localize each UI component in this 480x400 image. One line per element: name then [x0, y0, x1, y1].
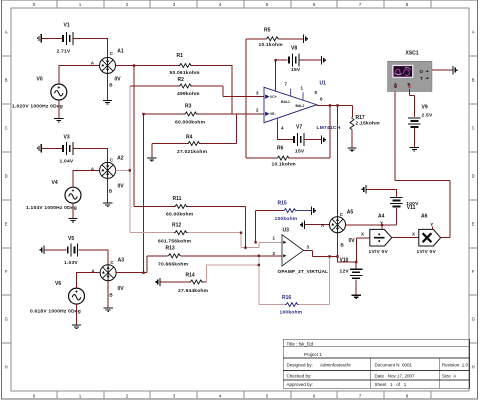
wire V4 to A2 A — [73, 170, 100, 187]
wire R5/R6 left leg — [245, 39, 247, 158]
svg-text:C: C — [5, 126, 8, 131]
svg-text:G: G — [472, 317, 475, 322]
ground (left of A5 A) — [301, 221, 305, 229]
wire V8 left to U1 pin7 — [276, 60, 288, 91]
title block text — [287, 342, 469, 388]
R16 feedback loop (pink) — [259, 256, 330, 305]
resistor R12 (pink net) — [130, 233, 259, 248]
resistor R3 — [144, 113, 233, 115]
resistor R16 (blue) — [285, 303, 299, 307]
svg-text:R1: R1 — [177, 53, 184, 59]
svg-text:T: T — [420, 76, 423, 81]
svg-text:27.021kohm: 27.021kohm — [177, 149, 208, 155]
svg-text:Size A: Size A — [442, 374, 456, 379]
ground (below V6) — [76, 304, 78, 325]
wire scope right to ground — [432, 69, 453, 71]
right ruler letters — [472, 30, 475, 370]
op-amp U1 — [264, 87, 317, 122]
wire A4 X input from V10 net — [356, 238, 370, 262]
svg-text:R13: R13 — [166, 246, 175, 252]
svg-text:1.104V 1000Hz 0Deg: 1.104V 1000Hz 0Deg — [26, 205, 77, 211]
ground (below A3 B) — [107, 281, 109, 308]
ground (below V4) — [72, 203, 74, 218]
svg-text:15V: 15V — [295, 148, 305, 154]
wire R15 left leg — [255, 211, 257, 243]
svg-text:50.061kohm: 50.061kohm — [170, 70, 201, 76]
svg-text:100kohm: 100kohm — [280, 310, 303, 316]
svg-text:V6: V6 — [55, 281, 61, 287]
AC source V6 — [69, 288, 85, 304]
svg-text:Sheet 1 of 1: Sheet 1 of 1 — [375, 382, 407, 387]
wire V11 top to ground — [367, 189, 397, 197]
svg-text:60.00kohm: 60.00kohm — [166, 212, 194, 218]
svg-text:Title : fsk_f2d: Title : fsk_f2d — [287, 342, 314, 347]
svg-text:A2: A2 — [117, 156, 124, 162]
svg-text:X: X — [412, 232, 415, 237]
svg-text:0V: 0V — [115, 77, 122, 83]
wire A4 out to A6 X — [392, 237, 419, 239]
svg-text:A: A — [472, 30, 475, 35]
wire R14 up to pin2 leg (pink) — [207, 265, 259, 282]
svg-text:27.944kohm: 27.944kohm — [178, 288, 209, 294]
wire V10 to ground — [355, 279, 357, 295]
svg-text:XSC1: XSC1 — [406, 51, 419, 57]
svg-text:R14: R14 — [186, 273, 195, 279]
wire output down to A5 C — [337, 105, 339, 216]
ground (left of V3) — [38, 144, 42, 152]
svg-text:70.666kohm: 70.666kohm — [158, 262, 189, 268]
battery V3 — [63, 142, 73, 155]
battery V5 — [68, 243, 78, 256]
svg-text:Revision 1.0: Revision 1.0 — [442, 363, 469, 368]
wire A1 out down to R11 row — [133, 66, 135, 207]
wire A3 out — [116, 256, 147, 273]
resistor R2 — [130, 86, 223, 97]
svg-text:X: X — [361, 232, 364, 237]
ground (right of R5) — [304, 35, 308, 43]
svg-text:R3: R3 — [185, 104, 192, 110]
bottom ruler numbers — [33, 394, 409, 399]
svg-text:VE-: VE- — [270, 112, 276, 116]
ground (left of R4) — [151, 144, 153, 158]
svg-text:B: B — [472, 78, 475, 83]
battery V10 (vertical) — [350, 269, 363, 278]
ground (right of R15) — [312, 206, 316, 214]
wire A5 B to V10 — [338, 233, 357, 269]
svg-text:O: O — [420, 69, 424, 74]
svg-text:601.756kohm: 601.756kohm — [158, 239, 192, 245]
wire U1 output — [317, 105, 353, 117]
svg-text:1V/V 0V: 1V/V 0V — [369, 249, 389, 255]
wire A2 out — [116, 169, 130, 171]
bottom ruler ticks — [57, 391, 431, 399]
ground (below A1 B) — [107, 74, 109, 101]
battery V8 — [289, 54, 299, 67]
wire A2 up to R2 row (pink) — [129, 86, 131, 233]
ground (left of V5) — [40, 246, 44, 254]
wire A6 out up to scope A — [395, 89, 450, 238]
svg-text:B: B — [408, 81, 411, 86]
svg-text:R15: R15 — [278, 201, 287, 207]
resistor R13 — [147, 255, 282, 257]
svg-text:R17: R17 — [356, 115, 365, 121]
svg-text:U3: U3 — [283, 228, 290, 234]
ground (left of V1) — [38, 34, 42, 42]
svg-text:V9: V9 — [422, 105, 428, 111]
wire U1 pin4 to V7 — [277, 122, 293, 140]
top ruler numbers — [33, 2, 409, 7]
svg-text:0V: 0V — [349, 238, 356, 244]
wire gnd to A5 A — [305, 224, 330, 226]
wire V0 to A1 A — [59, 65, 100, 84]
top ruler ticks — [57, 0, 431, 8]
svg-text:LM741CH: LM741CH — [317, 125, 341, 131]
svg-text:2.71V: 2.71V — [57, 49, 71, 55]
controlled block A3 — [100, 265, 116, 281]
svg-text:A1: A1 — [117, 49, 124, 55]
svg-text:BAL1: BAL1 — [281, 100, 290, 104]
svg-text:R2: R2 — [178, 77, 185, 83]
svg-text:R5: R5 — [264, 28, 271, 34]
svg-text:F: F — [5, 269, 8, 274]
svg-text:U1: U1 — [320, 81, 327, 87]
wire R11/R12 junction to U3 pin1 — [246, 242, 283, 247]
svg-text:A6: A6 — [421, 213, 428, 219]
resistor R1 — [179, 64, 193, 68]
svg-text:1.03V: 1.03V — [64, 260, 78, 266]
resistor R17 (vertical) — [350, 117, 354, 131]
svg-text:1.04V: 1.04V — [60, 159, 74, 165]
svg-text:C: C — [472, 126, 475, 131]
ground (below A2 B) — [107, 178, 109, 203]
wire R1 right to pin2 column — [192, 66, 232, 115]
AC source V0 — [51, 84, 67, 100]
svg-text:10.1kohm: 10.1kohm — [272, 161, 297, 167]
svg-text:R6: R6 — [277, 146, 284, 152]
svg-text:V3: V3 — [64, 135, 70, 141]
svg-text:Adminfostoschi: Adminfostoschi — [320, 363, 351, 368]
resistor R15 (blue) — [256, 210, 283, 212]
svg-text:12V: 12V — [340, 269, 350, 275]
svg-text:0V: 0V — [118, 286, 125, 292]
wire to U1 pin3 — [223, 96, 264, 98]
wire V3 to A2 C — [74, 148, 108, 162]
svg-text:R11: R11 — [173, 196, 182, 202]
svg-text:BAL2: BAL2 — [296, 104, 305, 108]
svg-text:V0: V0 — [37, 77, 43, 83]
svg-text:10.1kohm: 10.1kohm — [259, 42, 284, 48]
divider A4 — [370, 229, 392, 246]
op-amp U3 — [282, 235, 304, 266]
svg-text:V11: V11 — [407, 205, 416, 211]
svg-text:2.15kohm: 2.15kohm — [356, 121, 381, 127]
svg-text:H: H — [5, 365, 8, 370]
ground (left of R14) — [156, 278, 160, 286]
wire U3 output — [304, 250, 338, 256]
resistor R14 — [161, 281, 207, 283]
wire V8 right to ground — [299, 59, 321, 61]
svg-text:VC+: VC+ — [270, 95, 277, 99]
battery V1 — [63, 32, 73, 45]
svg-text:100kohm: 100kohm — [275, 216, 298, 222]
svg-text:V10: V10 — [340, 258, 349, 264]
svg-text:A4: A4 — [378, 213, 385, 219]
svg-text:Project 1: Project 1 — [304, 352, 322, 357]
svg-text:R4: R4 — [186, 135, 193, 141]
svg-text:E: E — [5, 222, 8, 227]
svg-text:R16: R16 — [282, 295, 291, 301]
left ruler letters — [5, 30, 8, 370]
wire R3 left down to A3 out — [143, 114, 145, 273]
svg-text:OPAMP_3T_VIRTUAL: OPAMP_3T_VIRTUAL — [278, 269, 329, 274]
svg-text:A: A — [394, 81, 397, 86]
resistor R11 — [134, 207, 246, 248]
title block frame — [283, 339, 469, 388]
resistor R5 — [246, 38, 303, 40]
svg-text:D: D — [5, 174, 8, 179]
svg-text:G: G — [5, 317, 8, 322]
svg-text:V4: V4 — [52, 180, 58, 186]
wire V1 to A1 C — [74, 38, 108, 57]
wire scope B to V9 — [409, 89, 414, 117]
ground (below V0) — [58, 100, 60, 119]
svg-text:Checked by:: Checked by: — [287, 374, 312, 379]
svg-text:B: B — [5, 78, 8, 83]
svg-text:H: H — [472, 365, 475, 370]
multiplier A6 — [419, 229, 441, 246]
wire A1 out to R1 — [116, 65, 179, 67]
resistor R6 — [246, 105, 330, 158]
controlled block A5 — [330, 217, 346, 233]
controlled block A1 — [100, 58, 116, 74]
svg-text:E: E — [472, 222, 475, 227]
left ruler ticks — [2, 56, 12, 343]
svg-text:Date Nov 17, 2007: Date Nov 17, 2007 — [375, 374, 416, 379]
svg-text:F: F — [472, 269, 475, 274]
wire V1 gnd to battery — [42, 37, 62, 39]
wire V5 to A3 C — [78, 250, 108, 265]
svg-text:V8: V8 — [291, 46, 297, 52]
svg-text:V1: V1 — [64, 23, 70, 29]
AC source V4 — [65, 187, 81, 203]
svg-text:0V: 0V — [118, 184, 125, 190]
wire to U1 pin2 — [232, 113, 264, 115]
wire V3 gnd to battery — [42, 147, 62, 149]
svg-text:15V: 15V — [291, 67, 301, 73]
wire A5 out / Y net — [346, 208, 397, 230]
svg-text:Y: Y — [430, 222, 433, 227]
svg-text:2.5V: 2.5V — [422, 113, 433, 119]
wire R17 to ground — [351, 131, 353, 148]
controlled block A2 — [100, 162, 116, 178]
svg-text:A5: A5 — [347, 210, 354, 216]
wire V7 right to ground — [304, 139, 321, 141]
svg-text:A: A — [5, 30, 8, 35]
svg-text:499kohm: 499kohm — [177, 91, 200, 97]
svg-text:60.000kohm: 60.000kohm — [175, 120, 206, 126]
battery V7 — [294, 133, 304, 146]
svg-text:A3: A3 — [118, 258, 125, 264]
wire V9 to ground — [413, 127, 415, 147]
svg-text:V5: V5 — [68, 236, 74, 242]
resistor R4 — [152, 114, 237, 144]
svg-text:Document N 0001: Document N 0001 — [375, 363, 413, 368]
svg-text:1.020V 1000Hz 0Deg: 1.020V 1000Hz 0Deg — [12, 104, 63, 110]
right ruler ticks — [469, 56, 478, 343]
wire V5 gnd to battery — [45, 249, 67, 251]
svg-text:R12: R12 — [172, 223, 181, 229]
svg-text:0.618V 1000Hz 0Deg: 0.618V 1000Hz 0Deg — [30, 309, 81, 315]
svg-text:Designed by:: Designed by: — [287, 363, 313, 368]
svg-text:V7: V7 — [296, 124, 302, 130]
wire V6 to A3 A — [77, 273, 101, 288]
svg-text:Approved by:: Approved by: — [287, 382, 314, 387]
battery V9 (vertical) — [408, 118, 421, 127]
svg-text:1V/V 0V: 1V/V 0V — [417, 249, 437, 255]
svg-text:D: D — [472, 174, 475, 179]
battery V11 (vertical) — [390, 197, 403, 206]
